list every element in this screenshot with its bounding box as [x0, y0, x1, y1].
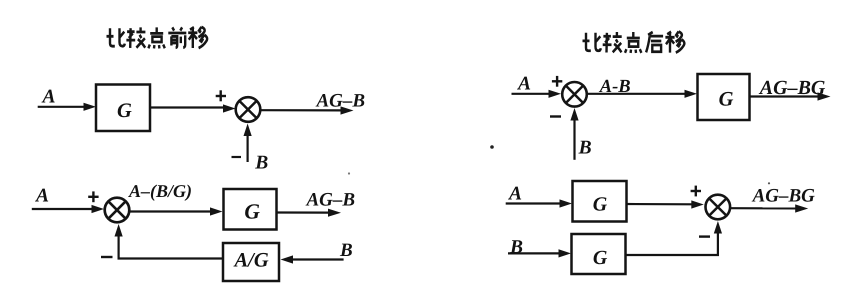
- wire A into G1 with arrowhead: [38, 103, 96, 111]
- svg-text:G: G: [719, 88, 734, 110]
- wire A into G4: [506, 199, 572, 207]
- block G3: [698, 74, 750, 120]
- svg-text:B: B: [509, 237, 523, 258]
- svg-text:AG–B: AG–B: [316, 91, 366, 112]
- wire B up into S1 (minus input): [244, 124, 252, 163]
- wire A/G to corner below S2: [119, 234, 223, 259]
- wire G5 to corner below S4 and up into S4: [625, 231, 718, 255]
- wire G1 to summing junction S1: [150, 106, 226, 108]
- title 比较点前移: [107, 27, 208, 48]
- svg-text:G: G: [593, 247, 608, 269]
- wire G3 to output: [749, 92, 831, 100]
- svg-text:A: A: [34, 186, 49, 207]
- wire S2 to G2: [130, 207, 223, 215]
- wire G4 to summing junction S4: [626, 200, 704, 208]
- plus sign at S2: [88, 191, 98, 202]
- plus sign at S4: [691, 186, 701, 197]
- wire G2 to output: [277, 209, 342, 217]
- svg-text:A–(B/G): A–(B/G): [128, 181, 192, 201]
- summing junction S4: [706, 195, 731, 220]
- svg-text:A: A: [516, 74, 531, 95]
- minus sign at S3: [550, 115, 561, 117]
- svg-text:AG–B: AG–B: [306, 190, 356, 211]
- block G4: [573, 181, 627, 222]
- wire S4 to output: [731, 204, 809, 212]
- block G1: [96, 85, 150, 132]
- svg-text:A: A: [507, 184, 522, 205]
- block G2: [224, 189, 277, 230]
- wire S3 to G3: [587, 90, 697, 98]
- svg-text:A/G: A/G: [233, 250, 269, 272]
- wire B up into S3 (minus input): [570, 108, 578, 160]
- summing junction S1: [236, 97, 261, 122]
- svg-text:AG–BG: AG–BG: [758, 77, 826, 99]
- svg-text:B: B: [254, 152, 268, 173]
- wire B into A/G block (leftward arrow): [281, 255, 344, 263]
- plus sign at S1: [216, 90, 226, 101]
- minus sign at S2: [101, 256, 113, 258]
- arrowhead up into S2: [115, 224, 123, 237]
- block A/G: [223, 243, 279, 281]
- svg-text:B: B: [578, 138, 592, 159]
- minus sign at S4: [699, 235, 710, 237]
- svg-text:AG–BG: AG–BG: [752, 185, 816, 206]
- wire S1 to output: [261, 106, 354, 114]
- svg-text:G: G: [117, 100, 132, 122]
- svg-text:A: A: [41, 86, 56, 107]
- minus sign at S1: [232, 156, 242, 158]
- summing junction S3: [562, 82, 587, 107]
- speck 2: [348, 172, 350, 174]
- plus sign at S3: [552, 76, 562, 87]
- arrowhead up into S4: [714, 221, 722, 234]
- wire A into summing junction S3: [512, 90, 562, 98]
- wire B into G5: [508, 249, 571, 257]
- arrowhead into S1: [223, 104, 236, 112]
- speck 1: [490, 145, 494, 149]
- speck 3: [768, 182, 770, 184]
- svg-text:G: G: [244, 200, 260, 224]
- svg-text:B: B: [339, 240, 353, 261]
- summing junction S2: [105, 198, 130, 223]
- title 比较点后移: [583, 32, 685, 53]
- svg-text:G: G: [593, 194, 608, 216]
- wire A into summing junction S2: [32, 205, 104, 213]
- block G5: [572, 234, 626, 274]
